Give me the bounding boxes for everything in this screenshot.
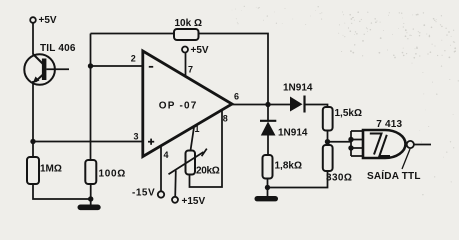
svg-text:1: 1 bbox=[195, 124, 200, 134]
terminal -15V bbox=[132, 188, 164, 199]
transistor Q1 TIL406 bbox=[24, 43, 76, 85]
wire to pin 3 bbox=[33, 141, 143, 143]
node emitter junction bbox=[30, 139, 35, 144]
svg-text:SAÍDA TTL: SAÍDA TTL bbox=[367, 169, 421, 182]
wire emitter down bbox=[32, 81, 34, 142]
wire pin 7 bbox=[185, 53, 187, 78]
wire to gate inputs bbox=[328, 141, 352, 143]
wire pin 4 bbox=[160, 146, 162, 192]
svg-text:+15V: +15V bbox=[182, 196, 206, 207]
wire junction to 330 bbox=[268, 171, 328, 188]
node ground junction bbox=[88, 196, 93, 201]
diode D2 1N914 vertical bbox=[260, 105, 308, 156]
op-amp U1 OP-07 bbox=[131, 51, 239, 160]
svg-text:20kΩ: 20kΩ bbox=[196, 166, 220, 177]
wire wiper to +15V bbox=[174, 171, 177, 198]
resistor R2 100 ohm bbox=[85, 160, 126, 184]
terminal +15V bbox=[172, 196, 205, 207]
wire pin 1 bbox=[191, 127, 195, 151]
svg-text:+5V: +5V bbox=[39, 15, 57, 26]
diode D1 1N914 horizontal bbox=[283, 83, 313, 113]
gate U2 7413 bbox=[363, 119, 414, 158]
wire feedback left bbox=[91, 33, 175, 35]
resistor R5 1.5k bbox=[323, 107, 362, 131]
svg-text:-15V: -15V bbox=[132, 188, 155, 199]
gate input bus bbox=[348, 131, 363, 156]
svg-text:1,8kΩ: 1,8kΩ bbox=[275, 161, 302, 172]
svg-text:1N914: 1N914 bbox=[283, 83, 313, 94]
node output junction bbox=[265, 102, 270, 107]
terminal +5V top-left bbox=[30, 15, 57, 26]
wire inverting node vertical bbox=[90, 34, 92, 161]
svg-text:+5V: +5V bbox=[191, 45, 209, 56]
svg-text:6: 6 bbox=[234, 92, 239, 102]
wire gate output bbox=[414, 144, 431, 146]
svg-text:3: 3 bbox=[134, 132, 139, 142]
svg-text:7: 7 bbox=[188, 65, 193, 75]
node pin2 junction bbox=[88, 63, 93, 68]
svg-text:10k Ω: 10k Ω bbox=[175, 18, 202, 29]
svg-text:8: 8 bbox=[223, 114, 228, 124]
wire pin 2 bbox=[91, 65, 144, 67]
svg-text:7 413: 7 413 bbox=[376, 119, 402, 130]
wire output pin 6 bbox=[231, 104, 290, 106]
svg-text:TIL 406: TIL 406 bbox=[40, 43, 76, 54]
label SAIDA TTL bbox=[367, 149, 421, 182]
svg-text:330Ω: 330Ω bbox=[326, 173, 352, 184]
ground left bbox=[78, 205, 101, 211]
svg-text:1,5kΩ: 1,5kΩ bbox=[335, 108, 362, 119]
wire +5V to transistor collector bbox=[32, 23, 34, 55]
svg-text:100Ω: 100Ω bbox=[99, 169, 127, 180]
resistor R3 10k bbox=[174, 18, 202, 40]
node 1.8k junction bbox=[265, 185, 270, 190]
node divider junction bbox=[325, 139, 330, 144]
wire feedback right bbox=[199, 34, 269, 105]
wire 1M bottom to ground bbox=[33, 184, 91, 199]
svg-text:2: 2 bbox=[131, 54, 136, 64]
wire 1.8k bottom bbox=[267, 179, 269, 197]
svg-text:OP -07: OP -07 bbox=[159, 101, 198, 112]
wire pot bottom to pin 8 bbox=[190, 110, 223, 187]
wire 100 ohm bottom bbox=[90, 184, 92, 205]
svg-text:1N914: 1N914 bbox=[278, 128, 308, 139]
svg-text:4: 4 bbox=[164, 150, 169, 160]
terminal +5V pin7 bbox=[182, 45, 209, 56]
wire between 1.5k and 330 bbox=[327, 131, 329, 146]
potentiometer P1 20k bbox=[169, 149, 220, 177]
resistor R1 1M bbox=[27, 142, 62, 185]
resistor R4 1.8k bbox=[263, 155, 302, 179]
wire diode to 1.5k bbox=[305, 105, 328, 108]
resistor R6 330 bbox=[323, 145, 353, 184]
ground right bbox=[255, 196, 279, 201]
svg-text:1MΩ: 1MΩ bbox=[40, 164, 62, 175]
